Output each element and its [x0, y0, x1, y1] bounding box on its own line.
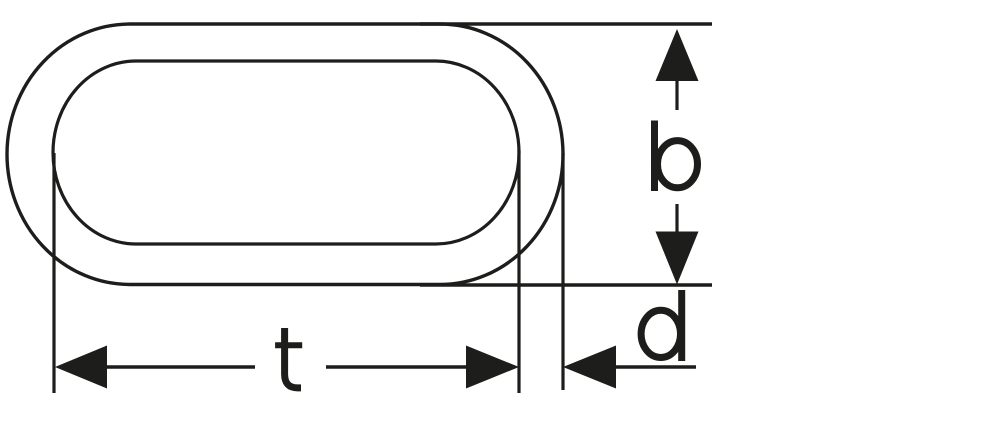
chain link inner outline [53, 61, 519, 244]
dimension d shaft [615, 365, 696, 368]
extension line left inner edge [52, 153, 55, 393]
dimension t shaft left [106, 365, 255, 368]
dimension b shaft upper [675, 80, 678, 110]
extension line right inner edge [517, 150, 520, 393]
extension line right outer edge [561, 153, 564, 390]
label d [641, 290, 682, 361]
extension line bottom (from link bottom to right) [420, 283, 712, 286]
dimension t shaft right [326, 365, 467, 368]
dimension t arrow right [466, 346, 519, 389]
chain link outer outline [7, 24, 563, 285]
extension line top (from link top to right) [420, 22, 712, 25]
dimension b arrow down [656, 232, 699, 285]
dimension b arrow up [656, 29, 699, 81]
dimension b shaft lower [675, 204, 678, 232]
label b [655, 121, 698, 192]
label t [275, 328, 302, 388]
dimension d arrow left [563, 346, 616, 389]
dimension t arrow left [55, 346, 107, 389]
